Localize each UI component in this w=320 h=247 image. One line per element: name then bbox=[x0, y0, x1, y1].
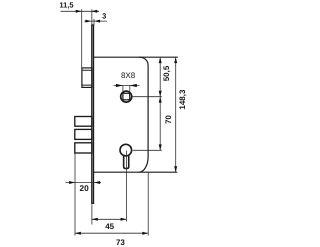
svg-text:20: 20 bbox=[79, 183, 89, 193]
svg-text:148,3: 148,3 bbox=[178, 89, 187, 110]
svg-text:50,5: 50,5 bbox=[162, 65, 171, 81]
svg-text:3: 3 bbox=[102, 11, 106, 20]
svg-text:45: 45 bbox=[105, 222, 114, 231]
svg-text:73: 73 bbox=[116, 238, 125, 247]
svg-text:11,5: 11,5 bbox=[59, 1, 73, 10]
svg-text:8X8: 8X8 bbox=[121, 71, 136, 80]
svg-text:70: 70 bbox=[164, 115, 173, 124]
